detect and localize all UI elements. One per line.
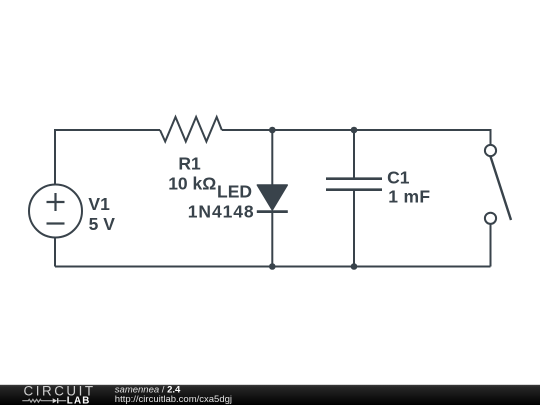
wire left vertical lower bbox=[54, 238, 56, 267]
resistor R1 bbox=[160, 117, 222, 142]
wire bottom horizontal bbox=[55, 266, 491, 268]
diode D1 LED 1N4148 triangle bbox=[257, 185, 287, 210]
node diode bottom bbox=[269, 263, 276, 270]
wire resistor to diode node bbox=[222, 129, 272, 131]
wire capacitor top lead bbox=[353, 130, 355, 178]
wire top-left horizontal bbox=[55, 129, 160, 131]
svg-text:1N4148: 1N4148 bbox=[188, 201, 255, 221]
switch SW1 bottom contact bbox=[485, 213, 496, 224]
svg-text:R1: R1 bbox=[178, 153, 201, 173]
wire diode cathode lead bbox=[271, 212, 273, 267]
wire capacitor bottom lead bbox=[353, 191, 355, 267]
footer bar bbox=[0, 385, 540, 405]
svg-text:C1: C1 bbox=[387, 168, 410, 188]
svg-text:LED: LED bbox=[217, 182, 252, 202]
diode D1 cathode bar bbox=[257, 210, 288, 213]
svg-text:1 mF: 1 mF bbox=[388, 187, 430, 207]
switch SW1 top contact bbox=[485, 145, 496, 156]
switch SW1 arm bbox=[491, 157, 512, 221]
svg-text:V1: V1 bbox=[88, 194, 110, 214]
svg-text:http://circuitlab.com/cxa5dgj: http://circuitlab.com/cxa5dgj bbox=[115, 394, 232, 405]
node diode top bbox=[269, 127, 276, 134]
svg-text:LAB: LAB bbox=[67, 396, 91, 405]
wire capacitor node to switch bbox=[354, 130, 491, 145]
wire left vertical upper bbox=[54, 129, 56, 185]
svg-text:5 V: 5 V bbox=[89, 214, 116, 234]
capacitor C1 bottom plate bbox=[326, 188, 382, 191]
node capacitor top bbox=[351, 127, 358, 134]
capacitor C1 top plate bbox=[326, 177, 382, 180]
wire diode anode lead bbox=[271, 130, 273, 186]
voltage source V1 bbox=[29, 185, 82, 238]
wire switch bottom lead bbox=[490, 224, 492, 266]
node capacitor bottom bbox=[351, 263, 358, 270]
logo resistor glyph bbox=[22, 399, 52, 402]
wire diode node to capacitor node bbox=[272, 129, 354, 131]
logo diode glyph bbox=[53, 398, 66, 403]
svg-text:10 kΩ: 10 kΩ bbox=[168, 174, 216, 194]
